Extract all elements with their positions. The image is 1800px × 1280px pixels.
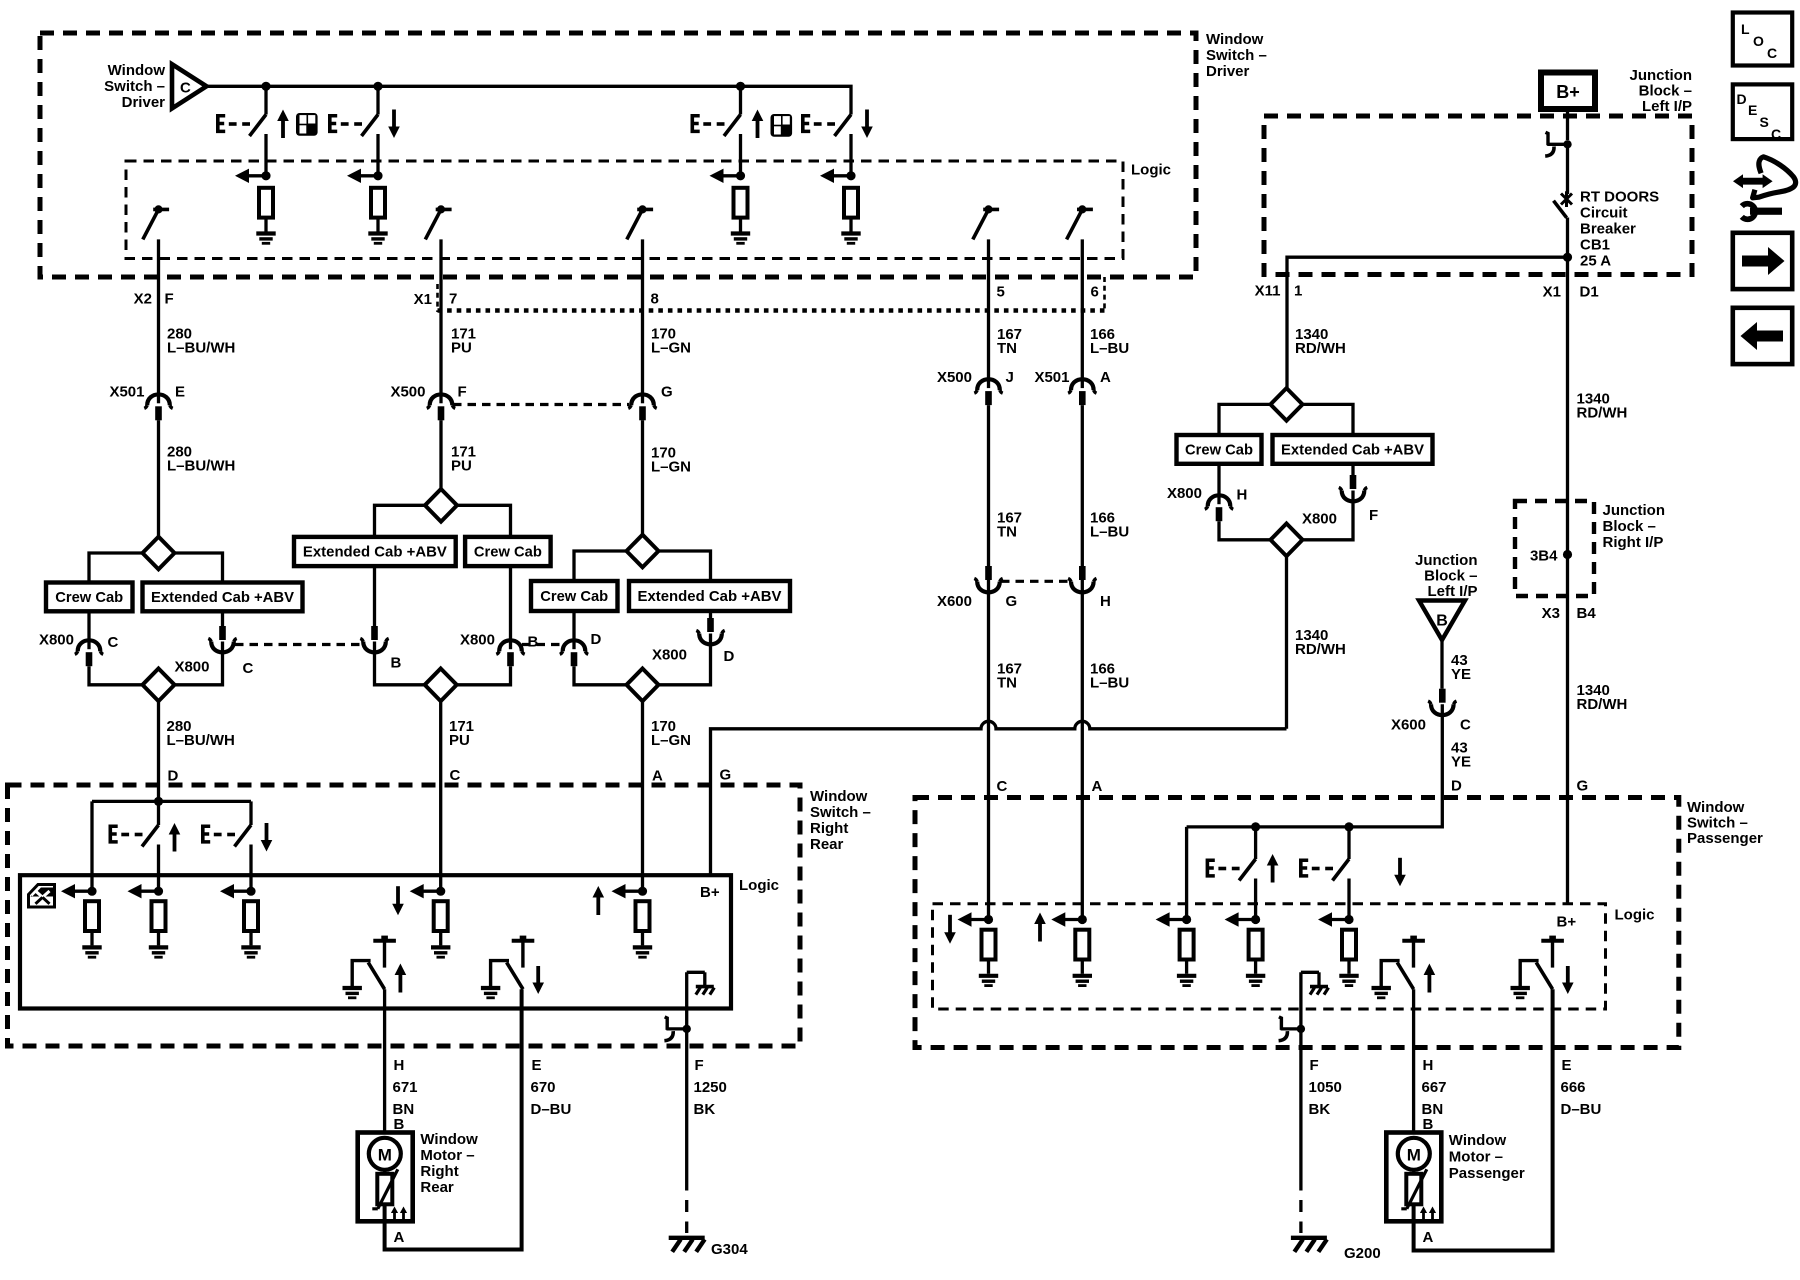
svg-text:TN: TN (997, 675, 1017, 692)
wire: passenger bus drop to logic (1185, 827, 1188, 920)
svg-text:B: B (391, 655, 402, 672)
signal arrow into logic (input 2) (347, 169, 383, 183)
svg-text:C: C (180, 79, 191, 96)
ground (passenger logic 2) (1073, 976, 1092, 986)
wire label: 280 L-BU/WH (lower) (167, 718, 235, 749)
svg-text:O: O (1753, 33, 1764, 49)
junction block - Right I/P box (dashed) (1515, 501, 1594, 596)
wire: passenger resistor 4 to ground (1254, 960, 1257, 974)
wire: switch SW4 to logic input (849, 134, 852, 176)
switch: driver logic output 5 (973, 205, 999, 239)
resistor (passenger logic 1) (982, 930, 996, 960)
wire label: E 670 D-BU (531, 1057, 572, 1118)
nav icon: DESC (1733, 84, 1792, 142)
label: Window Switch - Driver (module, right) (1206, 31, 1267, 80)
arrows: right-rear motor direction (391, 1207, 407, 1221)
wire: CB1 to output junction (1566, 218, 1569, 258)
splice R2 (1340 rejoin) (1271, 524, 1303, 557)
ground G304 (669, 1238, 749, 1258)
wire: logic output to pin F (X2) (157, 239, 160, 393)
svg-text:Rear: Rear (420, 1179, 454, 1196)
wire: S2 left branch to Extended Cab (375, 505, 426, 537)
wire label: 167 TN (upper) (997, 326, 1022, 357)
wire: 171 ext-cab leg to splice S2b (375, 642, 425, 685)
svg-text:Logic: Logic (1131, 162, 1171, 179)
label: Window Switch - Passenger (1687, 799, 1763, 847)
svg-text:Driver: Driver (1206, 63, 1250, 80)
svg-text:Switch –: Switch – (810, 804, 871, 821)
arrow: right-rear up-switch direction (169, 823, 181, 852)
svg-text:6: 6 (1091, 284, 1099, 301)
window motor - right rear (box) (358, 1133, 413, 1222)
switch SW3: window up (E contact) (691, 110, 764, 139)
resistor (right-rear logic 3) (244, 901, 258, 931)
connector mate line X600 G-H (dashed) (1001, 580, 1070, 583)
connector X1 labels and boundary (414, 277, 1105, 312)
svg-text:Block –: Block – (1603, 518, 1656, 535)
wire: passenger resistor 1 to ground (987, 960, 990, 974)
svg-text:1050: 1050 (1309, 1079, 1342, 1096)
wire label: 1340 RD/WH (X11 drop) (1295, 326, 1346, 357)
svg-text:L: L (1741, 21, 1750, 37)
nav icon: next page (right arrow) (1733, 233, 1792, 289)
svg-text:Motor –: Motor – (420, 1147, 474, 1164)
pin label X11 | 1 (1255, 283, 1303, 300)
svg-text:X800: X800 (1167, 485, 1202, 502)
signal arrow into logic (input 3) (710, 169, 746, 183)
svg-text:X800: X800 (174, 659, 209, 676)
switch: right rear window up (E contact) (109, 825, 159, 847)
switch: passenger window up (E contact) (1206, 854, 1279, 883)
svg-text:Crew Cab: Crew Cab (1185, 442, 1253, 459)
wire: 167 TN wire down to passenger switch (987, 405, 990, 919)
label: Logic (right rear) (739, 877, 779, 894)
circuit breaker CB1 contact (asterisk and blade) (1554, 191, 1573, 217)
wire: R1 left branch to Crew Cab (1219, 404, 1271, 435)
wire label: 280 L-BU/WH (upper) (167, 326, 235, 357)
thermal limiter (passenger motor) (1401, 1169, 1427, 1209)
wire: passenger motor lead H (667 BN) (1412, 989, 1415, 1132)
wire: right-rear resistor 5 to ground (641, 931, 644, 945)
svg-text:D–BU: D–BU (531, 1101, 572, 1118)
svg-text:667: 667 (1422, 1079, 1447, 1096)
svg-text:B4: B4 (1577, 605, 1597, 622)
option box: Crew Cab (280 branch) (46, 583, 133, 612)
svg-text:X501: X501 (109, 384, 144, 401)
svg-text:A: A (652, 768, 663, 785)
switch: driver logic output F (143, 205, 169, 239)
wire: 170 wire to Right Rear switch pin A (641, 701, 644, 891)
svg-text:TN: TN (997, 524, 1017, 541)
signal arrow into right-rear logic (input 4) (410, 884, 446, 898)
pin label A (passenger motor) (1423, 1229, 1434, 1246)
connector X800 pin C (280 ext-cab leg) (221, 611, 224, 626)
ground (right-rear logic 2) (149, 947, 168, 957)
wire label: 170 L-GN (lower) (651, 718, 691, 749)
connector X800 pin C (280 crew-cab leg) (87, 611, 90, 639)
svg-text:C: C (243, 660, 254, 677)
resistor (pull-down 3, driver logic) (734, 188, 748, 218)
svg-text:X800: X800 (652, 647, 687, 664)
label: B+ (right rear logic) (700, 884, 720, 901)
label: B+ (passenger logic) (1557, 914, 1577, 931)
wire: stub to switch SW2 (376, 86, 379, 114)
svg-text:X500: X500 (390, 384, 425, 401)
svg-text:H: H (1237, 487, 1248, 504)
switch: passenger motor-up driver (grounded) (1372, 936, 1436, 998)
svg-text:D: D (1451, 778, 1462, 795)
nav icon: LOC (1733, 13, 1792, 66)
resistor (right-rear logic 4) (434, 901, 448, 931)
wire label: 171 PU (upper) (451, 326, 476, 357)
wire: crew-cab leg to splice R2 (1219, 521, 1271, 540)
module box: Window Switch - Passenger (dashed) (915, 798, 1679, 1048)
connector X600 pin H (166 wire) (1068, 566, 1111, 610)
svg-text:Window: Window (108, 62, 166, 79)
svg-text:Extended Cab +ABV: Extended Cab +ABV (638, 588, 782, 605)
wire label: H 671 BN B (393, 1057, 418, 1133)
resistor (passenger logic 3) (1180, 930, 1194, 960)
pin label D (right rear) (168, 768, 179, 785)
signal arrow into logic (input 4) (820, 169, 856, 183)
wire: passenger down switch to logic (1347, 879, 1350, 920)
splice S1b (280 rejoin) (143, 669, 175, 702)
resistor (passenger logic 4) (1249, 930, 1263, 960)
switch: right-rear motor-down driver (grounded) (481, 936, 544, 998)
pin label G (right rear B+) (720, 767, 732, 784)
svg-text:A: A (394, 1229, 405, 1246)
ground (passenger logic 4) (1246, 976, 1265, 986)
svg-text:A: A (1100, 369, 1111, 386)
switch: driver logic output 8 (627, 205, 653, 239)
wire: S3 right branch to Extended Cab (659, 551, 711, 581)
svg-text:X800: X800 (39, 632, 74, 649)
svg-text:L–GN: L–GN (651, 340, 691, 357)
wire: switch SW2 to logic input (376, 134, 379, 176)
wire: 1340 distribution run to Right Rear B+ (with crossovers) (711, 721, 1287, 875)
module box: Window Switch - Driver (dashed outline) (40, 33, 1196, 277)
label: Logic (passenger) (1615, 907, 1655, 924)
signal arrow into logic (input 1) (235, 169, 271, 183)
connector mate line X500F-G (dashed) (453, 403, 629, 406)
svg-text:Passenger: Passenger (1687, 830, 1763, 847)
wire: 43 YE to passenger switch bus (1187, 704, 1443, 827)
signal arrow into passenger logic (input 1) (958, 912, 994, 926)
svg-text:G: G (1006, 593, 1018, 610)
wire: right-rear up switch to logic (157, 845, 160, 892)
splice S3 (170 wire) (627, 535, 659, 568)
wire: passenger resistor 3 to ground (1185, 960, 1188, 974)
svg-text:5: 5 (997, 284, 1005, 301)
wire label: 43 YE (lower) (1451, 740, 1471, 771)
svg-text:D1: D1 (1580, 284, 1599, 301)
svg-text:S: S (1760, 114, 1769, 130)
option box: Extended Cab +ABV (170 branch) (629, 581, 790, 611)
label: Junction Block - Left I/P (triangle B) (1415, 552, 1478, 600)
svg-text:Right I/P: Right I/P (1603, 534, 1664, 551)
wire label: 167 TN (lower) (997, 661, 1022, 692)
svg-text:PU: PU (451, 340, 472, 357)
signal arrow into right-rear logic (input 5) (612, 884, 648, 898)
connector B (triangle) Junction Block - Left I/P (1419, 601, 1465, 641)
wire: S2 right branch to Crew Cab (457, 505, 511, 537)
svg-text:Window: Window (1449, 1132, 1507, 1149)
svg-text:Window: Window (810, 788, 868, 805)
node: passenger bus junction 2 (1344, 822, 1353, 831)
chassis tie (passenger logic internal ground) (1301, 972, 1329, 994)
svg-text:L–BU/WH: L–BU/WH (167, 340, 235, 357)
wire: 1340 feed down to distribution run (1285, 556, 1288, 729)
ground (right-rear logic 1) (82, 947, 101, 957)
svg-text:YE: YE (1451, 666, 1471, 683)
svg-text:Crew Cab: Crew Cab (474, 544, 542, 561)
resistor (pull-down 2, driver logic) (371, 188, 385, 218)
connector pin B (171 ext-cab leg) (373, 566, 376, 626)
svg-text:M: M (1407, 1145, 1421, 1164)
svg-text:X2: X2 (134, 291, 152, 308)
wire label: 166 L-BU (upper) (1090, 326, 1129, 357)
wire: logic output to pin 7 (X1) (439, 239, 442, 393)
svg-text:8: 8 (651, 291, 659, 308)
splice S1 (280 wire) (143, 537, 175, 570)
svg-text:Crew Cab: Crew Cab (540, 588, 608, 605)
connector X500 pin F (390, 384, 466, 421)
svg-text:D: D (168, 768, 179, 785)
switch: passenger window down (E contact) (1299, 859, 1349, 881)
svg-text:Passenger: Passenger (1449, 1165, 1525, 1182)
wire: S3 left branch to Crew Cab (574, 551, 627, 581)
svg-text:E: E (1748, 102, 1757, 118)
wire: passenger motor return loop (A to E) (1414, 989, 1553, 1250)
window icon (right rear logic) (29, 885, 55, 908)
svg-text:Switch –: Switch – (104, 78, 165, 95)
svg-text:X600: X600 (1391, 717, 1426, 734)
wire: motor to thermal limiter (right rear) (383, 1170, 386, 1174)
svg-text:X800: X800 (460, 632, 495, 649)
wire: resistor 3 to ground (739, 218, 742, 232)
wire label: 166 L-BU (lower) (1090, 661, 1129, 692)
connector pin G (on 170 wire) (628, 384, 672, 421)
svg-text:666: 666 (1561, 1079, 1586, 1096)
arrow: right-rear down-switch direction (261, 823, 273, 852)
arrow: right-rear logic up annotation (593, 886, 605, 915)
switch: driver logic output 7 (425, 205, 451, 239)
svg-text:C: C (1771, 126, 1781, 142)
wire: stub to right-rear down switch (249, 801, 252, 825)
svg-text:Block –: Block – (1639, 83, 1692, 100)
label: Logic (driver) (1131, 162, 1171, 179)
ground (right-rear logic 4) (431, 947, 450, 957)
svg-text:F: F (165, 291, 174, 308)
connector pin D (170 crew-cab leg) (572, 611, 575, 640)
power feed B+ (boxed) (1541, 73, 1595, 110)
svg-text:Breaker: Breaker (1580, 221, 1636, 238)
resistor (pull-down 4, driver logic) (844, 188, 858, 218)
svg-text:B+: B+ (1557, 914, 1577, 931)
pin label X2 | F (134, 291, 174, 308)
wire: passenger up switch to logic (1254, 879, 1257, 920)
switch SW1: driver window up (E contact) (216, 110, 289, 139)
wire label: E 666 D-BU (1561, 1057, 1602, 1118)
module box: Junction Block - Left I/P (dashed) (1264, 116, 1692, 275)
svg-text:X1: X1 (414, 291, 432, 308)
svg-text:L–BU/WH: L–BU/WH (167, 458, 235, 475)
wire: right-rear down switch to logic (249, 845, 252, 892)
wire: motor to thermal limiter (passenger) (1412, 1170, 1415, 1174)
wire: S1 left branch to Crew Cab (89, 553, 143, 583)
option box: Crew Cab (1340 branch) (1177, 435, 1262, 464)
motor M (passenger) (1398, 1138, 1430, 1170)
wire: passenger resistor 5 to ground (1347, 960, 1350, 974)
pin label A (right rear) (652, 768, 663, 785)
option box: Extended Cab +ABV (171 branch) (294, 537, 456, 566)
label: Window Motor - Right Rear (420, 1131, 478, 1196)
window icon (driver pair 2) (771, 114, 793, 137)
node: bus junction 1 (261, 82, 270, 91)
svg-text:L–BU: L–BU (1090, 340, 1129, 357)
arrow: right-rear logic down annotation (392, 886, 404, 915)
svg-text:E: E (1562, 1057, 1572, 1074)
svg-text:M: M (378, 1145, 392, 1164)
svg-text:X500: X500 (937, 369, 972, 386)
nav icon: schematic reference (arrows and wrench) (1733, 157, 1796, 220)
arrows: passenger motor direction (1420, 1207, 1436, 1221)
logic box (right rear, solid) (20, 875, 731, 1008)
wire label: 167 TN (mid) (997, 510, 1022, 541)
svg-text:BK: BK (694, 1101, 716, 1118)
svg-text:L–BU/WH: L–BU/WH (167, 732, 235, 749)
label: Junction Block - Right I/P (1603, 502, 1666, 551)
svg-text:F: F (1310, 1057, 1319, 1074)
label: Window Switch - Right Rear (810, 788, 871, 853)
svg-text:H: H (1100, 593, 1111, 610)
resistor (right-rear logic 5) (636, 901, 650, 931)
svg-text:Junction: Junction (1630, 67, 1693, 84)
svg-text:Right: Right (810, 820, 848, 837)
connector C (triangle) of Window Switch - Driver (172, 64, 207, 108)
breaker hook contact (CB1 top) (1545, 132, 1572, 156)
svg-text:X3: X3 (1542, 605, 1560, 622)
wire: logic output to pin 5 (X1) (987, 239, 990, 378)
wire: R1 right branch to Extended Cab (1303, 404, 1354, 435)
svg-text:C: C (108, 634, 119, 651)
signal arrow into right-rear logic (input 1) (61, 884, 97, 898)
svg-text:H: H (394, 1057, 405, 1074)
wire: S1 right branch to Extended Cab (175, 553, 223, 583)
pin label D (passenger) (1451, 778, 1462, 795)
wire: logic output to pin 6 (X1) (1081, 239, 1084, 378)
wire: dashed lead to G200 (1299, 1179, 1302, 1234)
wire: 170 wire below G (641, 420, 644, 534)
svg-text:Switch –: Switch – (1206, 47, 1267, 64)
wire: resistor 1 to ground (264, 218, 267, 232)
ground (right-rear logic 3) (241, 947, 260, 957)
resistor (passenger logic 2) (1075, 930, 1089, 960)
svg-text:Switch –: Switch – (1687, 815, 1748, 832)
wire: switch SW1 to logic input (264, 134, 267, 176)
svg-text:RD/WH: RD/WH (1577, 405, 1628, 422)
thermal limiter (right-rear motor) (372, 1169, 398, 1209)
switch: driver logic output 6 (1067, 205, 1093, 239)
svg-text:X800: X800 (1302, 511, 1337, 528)
connector X800 pin H (1340 crew-cab leg) (1217, 464, 1220, 495)
arrow: passenger logic up annotation (1034, 913, 1046, 942)
wire: right-rear motor lead H (671 BN) (383, 989, 386, 1132)
wire: 166 L-BU wire down to passenger switch (1081, 405, 1084, 919)
svg-text:3B4: 3B4 (1530, 548, 1558, 565)
svg-text:Right: Right (420, 1163, 458, 1180)
label: RT DOORS Circuit Breaker CB1 25 A (1580, 189, 1659, 270)
ground (driver logic 4) (841, 234, 860, 244)
wire: right-rear motor return loop (A to E) (385, 989, 522, 1249)
resistor (passenger logic 5) (1342, 930, 1356, 960)
ground (driver logic 1) (256, 234, 275, 244)
svg-text:G: G (661, 384, 673, 401)
svg-text:Left I/P: Left I/P (1427, 583, 1477, 600)
svg-text:Logic: Logic (1615, 907, 1655, 924)
window icon (driver pair 1) (296, 113, 318, 136)
pin label A (right-rear motor) (394, 1229, 405, 1246)
svg-text:G: G (720, 767, 732, 784)
svg-text:E: E (532, 1057, 542, 1074)
wire: hook to breaker contact (1566, 146, 1569, 194)
pin label C (passenger, 167 wire) (997, 778, 1008, 795)
node: CB1 output junction (1563, 253, 1572, 262)
svg-text:Extended Cab +ABV: Extended Cab +ABV (303, 544, 447, 561)
label: Window Switch - Driver (at connector C) (104, 62, 165, 111)
wire label: 1340 RD/WH (right drop upper) (1577, 391, 1628, 422)
node: bus junction 3 (736, 82, 745, 91)
svg-text:CB1: CB1 (1580, 237, 1610, 254)
wire label: 1340 RD/WH (to distribution) (1295, 627, 1346, 658)
breaker hook contact (right-rear ground lead) (664, 1017, 691, 1041)
option box: Crew Cab (171 branch) (465, 537, 550, 566)
connector X501 pin E (109, 384, 185, 421)
wire label: 43 YE (upper) (1451, 652, 1471, 683)
svg-text:B: B (1436, 613, 1448, 630)
wire label: 170 L-GN (upper) (651, 326, 691, 357)
switch: right-rear motor-up driver (grounded) (343, 936, 407, 998)
wire: B+ bus from connector C (207, 86, 852, 114)
resistor (pull-down 1, driver logic) (259, 188, 273, 218)
svg-text:D: D (591, 631, 602, 648)
wire: stub to right-rear up switch (157, 801, 160, 825)
svg-text:Left I/P: Left I/P (1642, 98, 1692, 115)
wire label: 280 L-BU/WH (mid) (167, 444, 235, 475)
svg-text:7: 7 (449, 291, 457, 308)
switch: right rear window down (E contact) (201, 825, 251, 847)
svg-text:B: B (528, 634, 539, 651)
chassis tie (right-rear logic internal ground) (687, 972, 715, 994)
connector X800 pin D (170 ext-cab leg) (709, 611, 712, 618)
svg-text:F: F (695, 1057, 704, 1074)
connector X800 pin F (1340 ext-cab leg) (1351, 464, 1354, 475)
connector mate line C-B (dashed) (235, 643, 362, 646)
svg-text:X1: X1 (1543, 284, 1561, 301)
wire: stub to passenger up switch (1254, 827, 1257, 859)
option box: Extended Cab +ABV (280 branch) (143, 583, 303, 612)
svg-text:RD/WH: RD/WH (1577, 696, 1628, 713)
svg-text:H: H (1423, 1057, 1434, 1074)
svg-text:F: F (458, 384, 467, 401)
svg-text:25 A: 25 A (1580, 253, 1611, 270)
connector X501 pin A (1034, 369, 1111, 405)
ground (driver logic 2) (368, 234, 387, 244)
wire: junction to pin D1 (X1) (1566, 257, 1569, 905)
wire label: 170 L-GN (mid) (651, 445, 691, 476)
svg-text:G: G (1577, 778, 1589, 795)
svg-text:L–BU: L–BU (1090, 524, 1129, 541)
